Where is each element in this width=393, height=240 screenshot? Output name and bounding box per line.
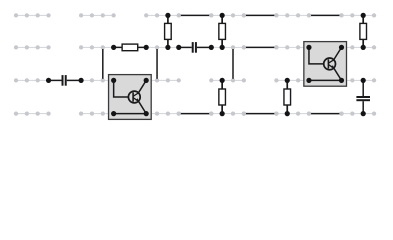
junction row C x=342 (339, 78, 344, 83)
wire (unused) row D nodes 6-9 (79, 111, 114, 115)
capacitor C3 (vertical, rows C-D) (356, 80, 370, 113)
wire (unused) row A nodes 24-27 (274, 13, 311, 17)
wire vertical x=233 rows B-C (232, 49, 234, 79)
junction row B x=309 (306, 45, 311, 50)
wire (unused) row B nodes 30-33 (342, 45, 377, 49)
resistor R2 (vertical, rows A-B) (219, 15, 226, 47)
wire row D nodes 21-24 (242, 111, 279, 115)
junction row D x=222 (220, 111, 225, 116)
junction row C x=309 (306, 78, 311, 83)
wire (unused) row A nodes 6-9 (79, 13, 116, 17)
wire (unused) row C nodes 12-15 (146, 78, 181, 82)
junction row A x=168 (165, 13, 170, 18)
wire (unused) row C nodes 24-27 (274, 78, 309, 82)
wire (unused) row A nodes 18-21 (209, 13, 246, 17)
wire (unused) row C nodes 0-3 (14, 78, 49, 82)
wire (unused) row B nodes 12-15 (146, 45, 179, 49)
wire (unused) row B nodes 6-9 (79, 45, 114, 49)
wire vertical x=103 rows B-C (102, 49, 104, 79)
junction row C x=81 (79, 78, 84, 83)
wire (unused) row D nodes 18-21 (209, 111, 246, 115)
junction row C x=49 (46, 78, 51, 83)
wire (unused) row D nodes 30-33 (339, 111, 376, 115)
junction row D x=363 (361, 111, 366, 116)
resistor R4 (horizontal, row B) (114, 44, 147, 51)
junction row B x=146 (144, 45, 149, 50)
junction row B x=222 (220, 45, 225, 50)
junction row B x=211 (209, 45, 214, 50)
wire (unused) row C nodes 30-33 (342, 78, 377, 82)
junction row D x=146 (144, 111, 149, 116)
transistor Q1 (boxed BJT, rows B-C) (304, 42, 347, 87)
resistor R1 (vertical, rows A-B) (165, 15, 172, 47)
junction row B x=363 (361, 45, 366, 50)
junction row A x=363 (361, 13, 366, 18)
junction row C x=222 (220, 78, 225, 83)
wire (unused) row B nodes 18-21 (211, 45, 246, 49)
resistor R5 (vertical, rows C-D) (219, 80, 226, 113)
junction row A x=222 (220, 13, 225, 18)
wire (unused) row B nodes 0-3 (14, 45, 51, 49)
capacitor C1 (horizontal, row B) (179, 42, 212, 53)
junction row D x=114 (111, 111, 116, 116)
junction row D x=287 (285, 111, 290, 116)
wire (unused) row A nodes 0-3 (14, 13, 51, 17)
junction row B x=114 (111, 45, 116, 50)
junction row C x=363 (361, 78, 366, 83)
junction row B x=179 (176, 45, 181, 50)
resistor R3 (vertical, rows A-B) (360, 15, 367, 47)
capacitor C2 (horizontal, row C) (49, 75, 82, 86)
wire row A nodes 21-24 (242, 13, 279, 17)
wire (unused) row D nodes 12-15 (146, 111, 181, 115)
transistor Q2 (boxed BJT, rows C-D) (109, 75, 152, 120)
wire (unused) row A nodes 12-15 (144, 13, 181, 17)
junction row C x=146 (144, 78, 149, 83)
wire (unused) row B nodes 24-27 (274, 45, 309, 49)
wire row D nodes 15-18 (177, 111, 214, 115)
wire (unused) row D nodes 0-3 (14, 111, 51, 115)
junction row C x=287 (285, 78, 290, 83)
wire row D nodes 27-30 (307, 111, 344, 115)
wire row A nodes 27-30 (307, 13, 344, 17)
junction row B x=168 (165, 45, 170, 50)
wire row A nodes 15-18 (177, 13, 214, 17)
junction row C x=114 (111, 78, 116, 83)
wire vertical x=157 rows B-C (156, 49, 158, 79)
junction row B x=342 (339, 45, 344, 50)
resistor R6 (vertical, rows C-D) (284, 80, 291, 113)
wire row B nodes 21-24 (242, 45, 279, 49)
wire (unused) row C nodes 18-21 (209, 78, 246, 82)
wire (unused) row A nodes 30-33 (339, 13, 376, 17)
wire (unused) row C nodes 6-9 (81, 78, 114, 82)
wire (unused) row D nodes 24-27 (274, 111, 311, 115)
